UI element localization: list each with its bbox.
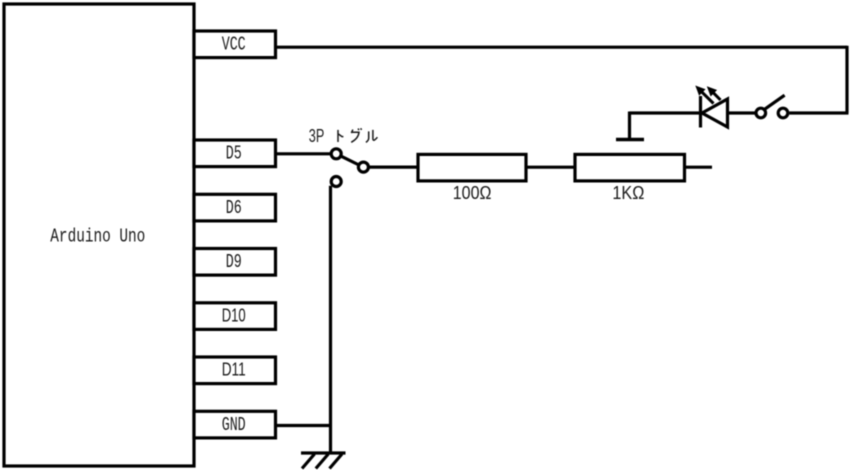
wire toggle SW1 common to R1 <box>369 166 418 169</box>
toggle SW1 lever <box>342 156 358 164</box>
svg-text:D11: D11 <box>222 360 246 380</box>
wire D5 pin to toggle SW1 <box>276 152 331 155</box>
pin D10 <box>194 303 276 330</box>
IC U1 Arduino Uno body <box>4 4 194 466</box>
pin D5 <box>194 140 276 167</box>
svg-text:D10: D10 <box>222 305 246 325</box>
wire R1 to R2 <box>526 166 575 169</box>
switch SW2 right contact <box>778 108 788 118</box>
chassis ground <box>301 453 346 469</box>
label 3P トグル <box>309 126 378 146</box>
svg-text:VCC: VCC <box>222 34 246 56</box>
svg-text:GND: GND <box>222 414 246 436</box>
svg-text:100Ω: 100Ω <box>453 183 492 203</box>
pin GND <box>194 411 276 438</box>
LED D1 light arrow 2 <box>707 86 721 100</box>
toggle SW1 contact B (ground side) <box>331 177 341 187</box>
wire R2 right open end <box>685 166 713 169</box>
wire VCC pin to top-right corner <box>276 46 848 49</box>
resistor R1 100Ω <box>418 154 526 181</box>
signal ground at LED cathode <box>616 112 644 140</box>
toggle SW1 contact A (D5 side) <box>331 149 341 159</box>
wire switch SW2 to right-edge vertical <box>789 111 848 114</box>
svg-text:1KΩ: 1KΩ <box>612 183 644 203</box>
toggle SW1 common contact <box>358 162 368 172</box>
LED D1 light arrow 1 <box>695 86 713 104</box>
switch SW2 left contact <box>756 108 766 118</box>
wire right-edge vertical down to switch SW2 <box>845 46 848 113</box>
wire LED D1 cathode to signal ground <box>630 111 701 114</box>
svg-text:D9: D9 <box>226 251 242 273</box>
pin VCC <box>194 31 276 58</box>
svg-text:D5: D5 <box>226 143 242 165</box>
resistor R2 1KΩ <box>575 154 685 181</box>
wire LED D1 anode to switch SW2 <box>728 111 757 114</box>
LED D1 cathode bar <box>699 96 702 128</box>
pin D6 <box>194 194 276 221</box>
pin D11 <box>194 357 276 384</box>
pin D9 <box>194 249 276 276</box>
svg-text:D6: D6 <box>226 197 242 219</box>
wire GND pin to ground vertical <box>276 424 331 427</box>
wire toggle SW1 contact B down to chassis ground <box>329 186 332 453</box>
LED D1 triangle <box>702 99 728 127</box>
svg-text:Arduino Uno: Arduino Uno <box>50 225 145 247</box>
svg-text:3P: 3P <box>309 126 325 146</box>
switch SW2 lever <box>764 95 784 109</box>
